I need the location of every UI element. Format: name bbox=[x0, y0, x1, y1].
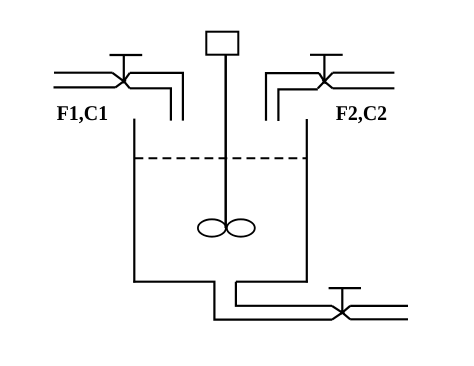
tank left wall bbox=[133, 119, 135, 283]
label F2,C2 bbox=[336, 101, 387, 125]
pipe V2 to tank outer line bbox=[266, 73, 319, 121]
label F1,C1 bbox=[57, 101, 109, 125]
impeller blade left bbox=[198, 219, 226, 236]
impeller blade right bbox=[227, 219, 255, 236]
outlet pipe outer line bbox=[214, 282, 332, 320]
valve V3 body bbox=[332, 306, 350, 320]
valve V3 stem bbox=[341, 288, 343, 311]
pipe V1 to tank outer line bbox=[130, 73, 183, 121]
valve V2 body bbox=[318, 73, 333, 89]
inlet pipe F2 lower line bbox=[333, 87, 395, 89]
pipe V2 to tank inner line bbox=[278, 89, 317, 121]
outlet pipe inner line bbox=[236, 282, 332, 306]
outlet pipe right lower line bbox=[350, 318, 408, 320]
svg-text:F2,C2: F2,C2 bbox=[336, 101, 387, 125]
inlet pipe F1 lower line bbox=[54, 86, 116, 88]
liquid level dashed line bbox=[135, 157, 307, 159]
valve V2 handle bbox=[310, 54, 343, 56]
svg-text:F1,C1: F1,C1 bbox=[57, 101, 109, 125]
tank right wall bbox=[306, 119, 308, 283]
inlet pipe F2 upper line bbox=[333, 72, 395, 74]
outlet pipe right upper line bbox=[350, 305, 408, 307]
valve V3 handle bbox=[329, 287, 361, 289]
tank bottom left segment bbox=[133, 281, 215, 283]
valve V1 handle bbox=[110, 54, 143, 56]
motor box M1 bbox=[206, 32, 238, 55]
stirrer shaft bbox=[224, 55, 227, 228]
valve V1 stem bbox=[123, 55, 125, 80]
valve V1 body bbox=[113, 73, 130, 88]
pipe V1 to tank inner line bbox=[130, 88, 171, 120]
inlet pipe F1 upper line bbox=[54, 72, 113, 74]
tank bottom right segment bbox=[236, 281, 308, 283]
valve V2 stem bbox=[323, 55, 325, 80]
